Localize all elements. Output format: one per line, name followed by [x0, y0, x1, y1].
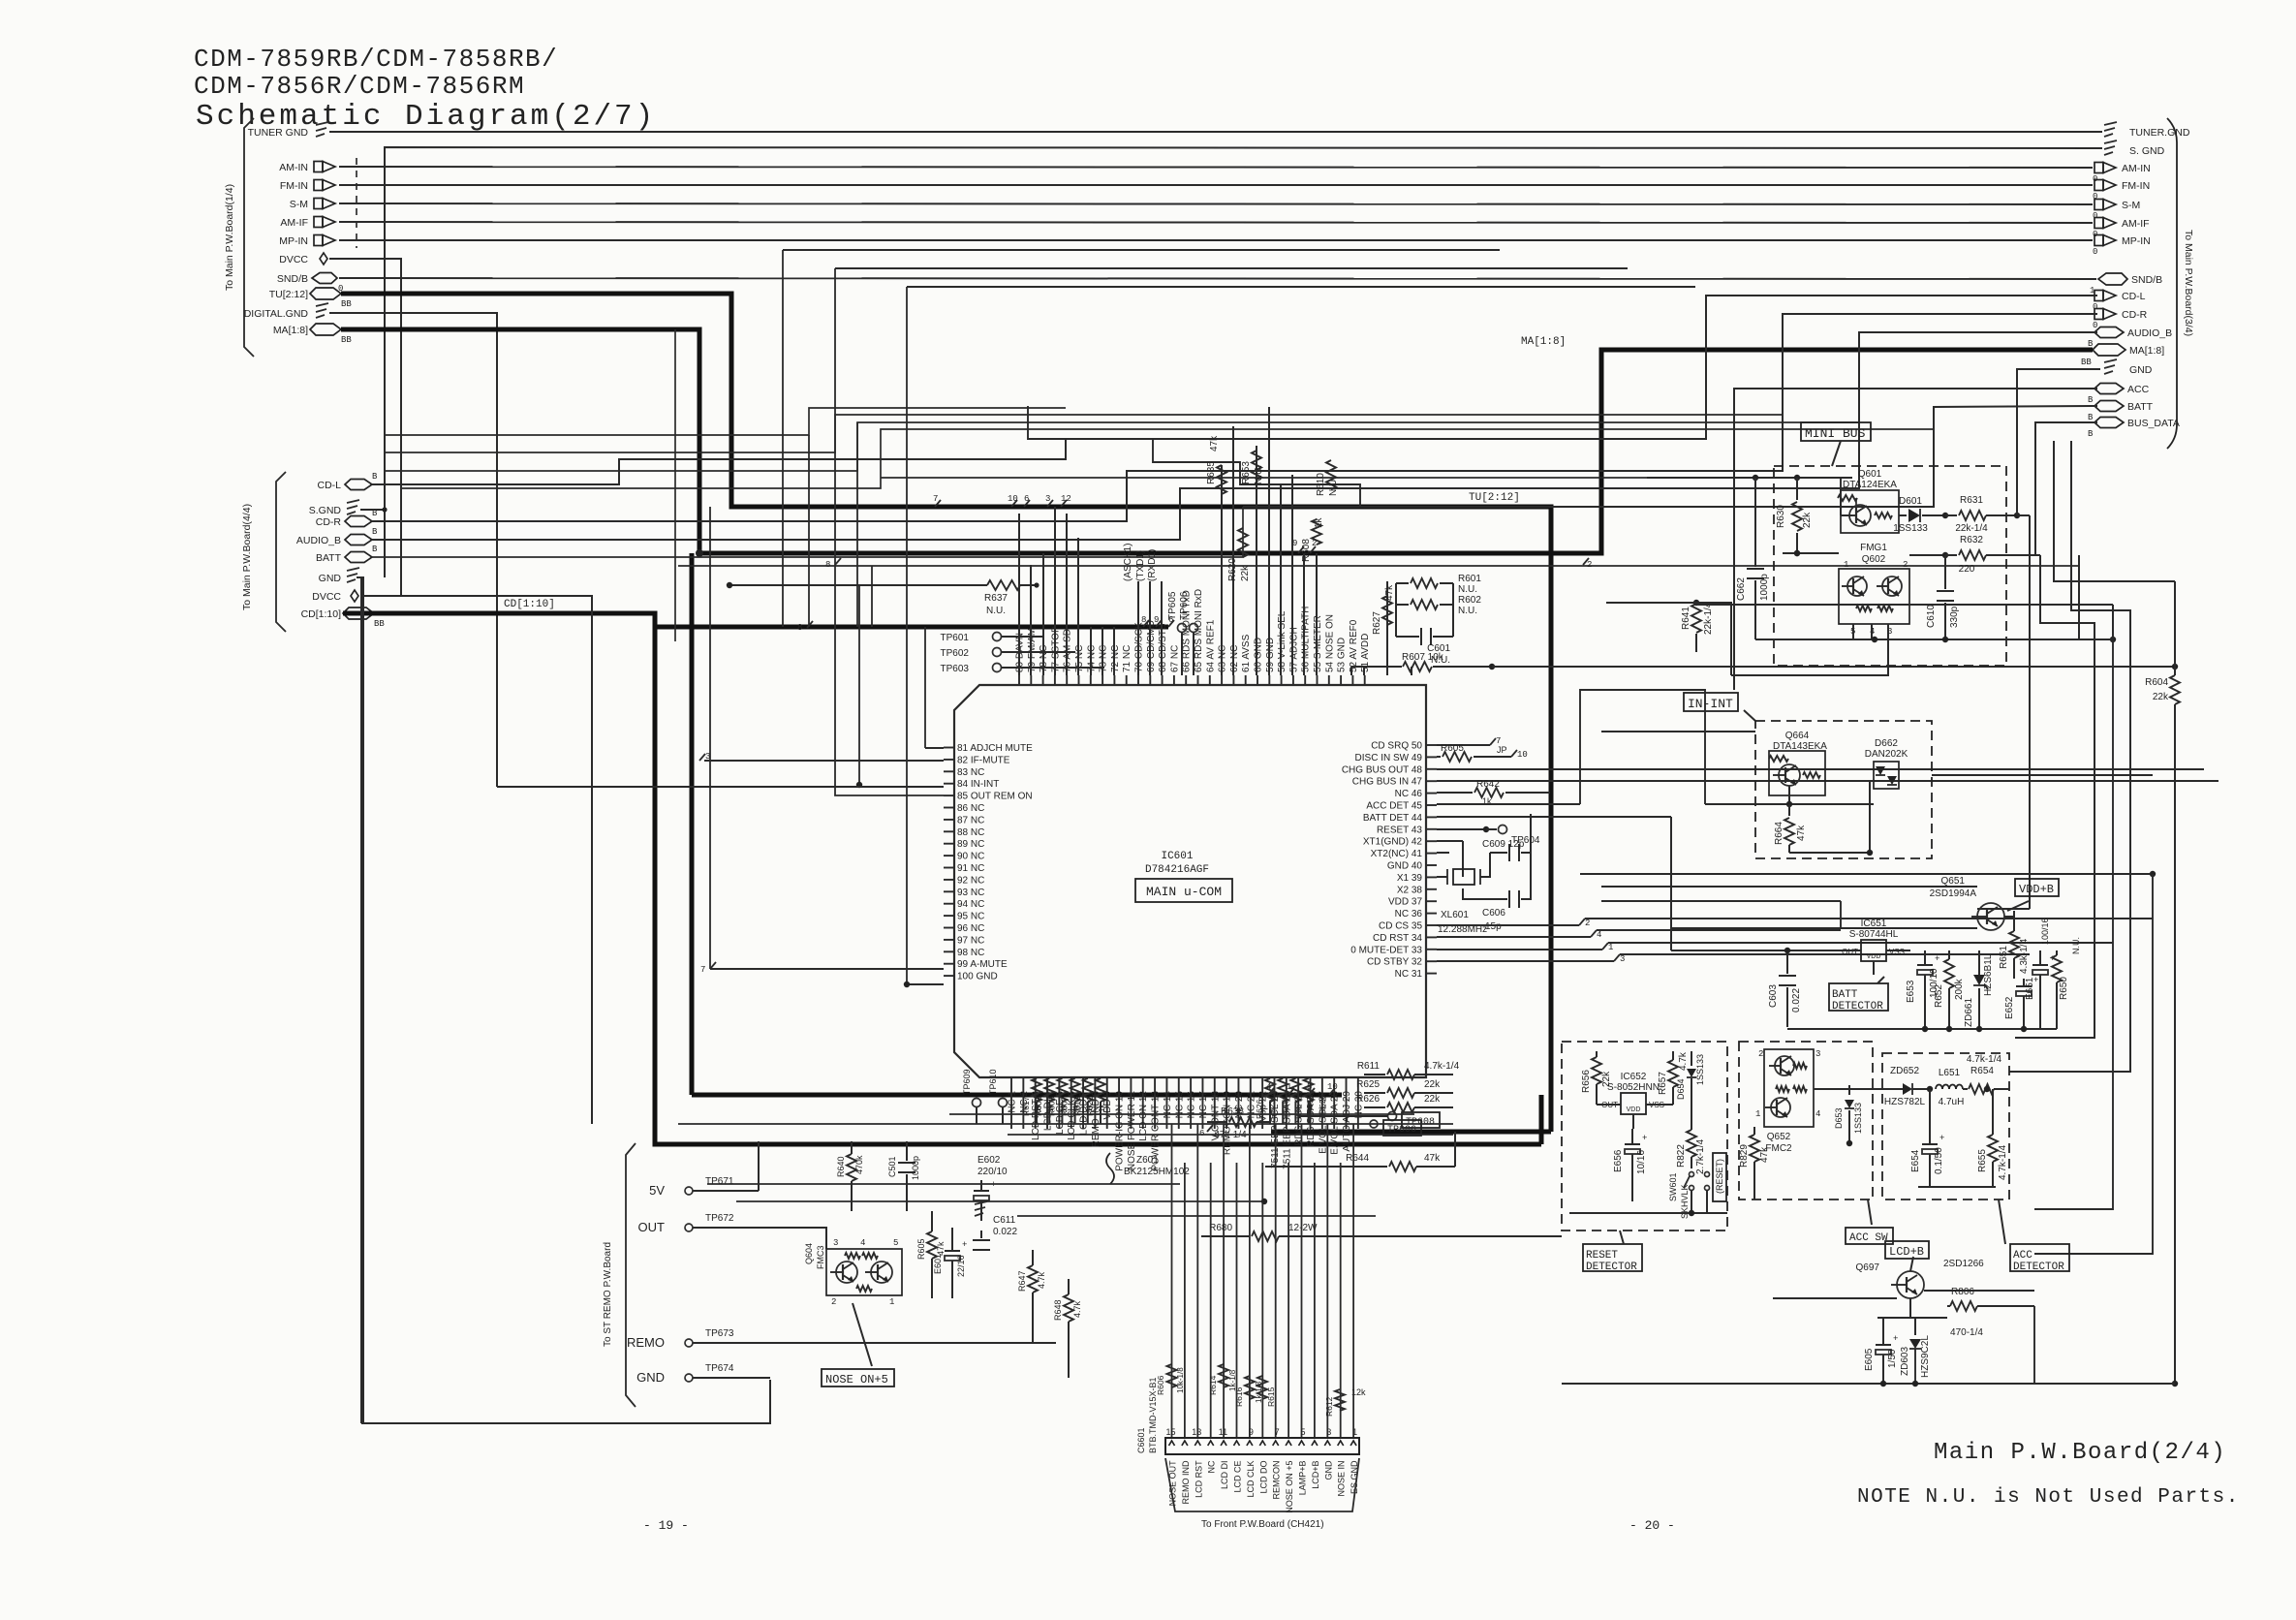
- svg-text:HZS9C2L: HZS9C2L: [1920, 1335, 1931, 1378]
- transistor pair Q602 FMG1: [1839, 543, 1909, 637]
- svg-text:4.7k-1/4: 4.7k-1/4: [1967, 1054, 2002, 1065]
- svg-text:GND: GND: [319, 573, 342, 584]
- svg-text:To Front P.W.Board (CH421): To Front P.W.Board (CH421): [1201, 1519, 1324, 1530]
- svg-text:1SS133: 1SS133: [1893, 523, 1928, 534]
- svg-text:58 V-Link SEL: 58 V-Link SEL: [1277, 610, 1288, 672]
- svg-text:S-M: S-M: [2122, 200, 2140, 211]
- svg-text:R829: R829: [1739, 1144, 1750, 1168]
- diode D662 DAN202K: [1865, 738, 1908, 789]
- svg-text:8: 8: [825, 560, 830, 570]
- svg-text:2: 2: [1585, 919, 1590, 928]
- svg-text:FM-IN: FM-IN: [2122, 180, 2150, 192]
- svg-text:0 MUTE-DET 33: 0 MUTE-DET 33: [1350, 945, 1422, 955]
- svg-text:XL601: XL601: [1441, 910, 1469, 920]
- svg-text:3: 3: [705, 752, 710, 762]
- wire right staircase d: [2009, 441, 2130, 1072]
- wire vert x=887 down: [856, 585, 862, 788]
- svg-text:NOSE ON+5: NOSE ON+5: [825, 1373, 888, 1386]
- text NOTE: [1857, 1486, 2240, 1509]
- svg-text:DVCC: DVCC: [279, 254, 308, 265]
- svg-text:+: +: [991, 1180, 996, 1190]
- svg-text:4.7k: 4.7k: [1037, 1271, 1046, 1289]
- svg-text:+: +: [1935, 954, 1939, 964]
- svg-text:MA[1:8]: MA[1:8]: [1521, 336, 1566, 348]
- svg-text:R626: R626: [1356, 1094, 1380, 1105]
- wire horizontals below IC: [678, 1114, 1453, 1216]
- svg-text:Q664: Q664: [1785, 731, 1810, 741]
- svg-text:R645: R645: [1280, 1099, 1289, 1119]
- wire R664 bottom: [1789, 781, 1874, 856]
- bus tap 65: [1199, 1125, 1213, 1138]
- svg-text:1/50: 1/50: [1887, 1349, 1898, 1368]
- svg-text:NOSE IN: NOSE IN: [1337, 1458, 1347, 1497]
- svg-text:C610: C610: [1926, 605, 1937, 628]
- svg-text:AM-IF: AM-IF: [2122, 218, 2150, 230]
- svg-text:E652: E652: [2004, 996, 2015, 1019]
- svg-text:R632: R632: [1960, 535, 1983, 545]
- wire vert x=611 down: [591, 596, 593, 1124]
- resistors below IC cluster right: [1255, 1077, 1327, 1124]
- svg-text:81 ADJCH MUTE: 81 ADJCH MUTE: [957, 743, 1033, 754]
- svg-text:79 FM/AM: 79 FM/AM: [1027, 628, 1038, 672]
- wire to pin 81: [925, 747, 944, 749]
- diode D601 1SS133: [1893, 496, 1948, 534]
- crystal XL601 12.288MHz: [1437, 841, 1490, 935]
- svg-text:BATT: BATT: [2127, 401, 2154, 413]
- svg-text:10k-1/8: 10k-1/8: [1176, 1367, 1185, 1393]
- svg-text:SND/B: SND/B: [2131, 274, 2162, 286]
- svg-text:R651: R651: [1999, 946, 2009, 969]
- svg-text:22k: 22k: [1424, 1079, 1441, 1090]
- resistor R640 470k: [836, 1141, 864, 1211]
- wire pin49 DISC IN SW: [1437, 743, 1528, 762]
- bus CD branch thick: [655, 615, 1174, 627]
- resistor R644 47k: [1265, 1132, 1455, 1171]
- resistor R602 N.U.: [1396, 595, 1481, 616]
- capacitor C606 15p: [1463, 853, 1531, 932]
- wire pin32 CD STBY: [1437, 954, 2030, 964]
- wire vert x=733 down: [709, 507, 711, 969]
- bus bottom loop thick y=1130: [692, 1093, 1342, 1098]
- resistor R615 1k-1/8: [1257, 1376, 1276, 1407]
- svg-text:AM-IN: AM-IN: [279, 162, 308, 173]
- bus taps on TU bus: [933, 494, 1071, 507]
- svg-text:0.1/50: 0.1/50: [1934, 1147, 1944, 1174]
- transistor Q651 2SD1994A VDD+B: [1930, 876, 2059, 930]
- wire pin48 CHG BUS OUT long: [1437, 768, 2204, 770]
- wire CD-L net: [372, 296, 2097, 484]
- wire right vertical f: [2112, 605, 2114, 640]
- resistor R614 1k-1/8: [1208, 1364, 1237, 1395]
- svg-text:3: 3: [1045, 494, 1050, 504]
- svg-text:R610: R610: [1316, 473, 1326, 496]
- transistor Q664 DTA143EKA: [1769, 731, 1827, 795]
- capacitor E602 220/10: [974, 1155, 1008, 1221]
- wire pin45 ACC DET: [1437, 803, 1580, 805]
- bus TU[2:12] thick: [341, 294, 1551, 1132]
- svg-text:R650: R650: [2059, 977, 2069, 1000]
- IC IC651 S-80744HL: [1841, 919, 1910, 975]
- IC601 top pins 80-51: [1015, 589, 1372, 685]
- svg-text:R605: R605: [1441, 743, 1464, 754]
- svg-text:4.3k-1/4: 4.3k-1/4: [2019, 938, 2030, 974]
- svg-text:D601: D601: [1899, 496, 1922, 507]
- svg-text:+: +: [1893, 1334, 1898, 1344]
- svg-text:TP671: TP671: [705, 1176, 734, 1187]
- svg-text:CHG BUS IN 47: CHG BUS IN 47: [1352, 777, 1423, 788]
- svg-text:1k: 1k: [1098, 1104, 1106, 1112]
- svg-text:BB: BB: [341, 335, 352, 345]
- connector J4 OUT TP672: [638, 1213, 759, 1234]
- capacitor C501 1000p: [887, 1141, 920, 1211]
- svg-text:5: 5: [893, 1238, 898, 1248]
- svg-text:MP-IN: MP-IN: [2122, 235, 2151, 247]
- svg-text:CD-L: CD-L: [317, 480, 341, 491]
- svg-text:C606: C606: [1482, 908, 1505, 919]
- svg-text:CD STBY 32: CD STBY 32: [1367, 957, 1422, 968]
- svg-text:R680: R680: [1209, 1223, 1232, 1233]
- svg-text:12k: 12k: [1351, 1387, 1366, 1397]
- svg-text:ZD652: ZD652: [1890, 1066, 1919, 1076]
- transistor Q601 DTA124EKA: [1838, 469, 1899, 533]
- svg-text:R601: R601: [1458, 574, 1481, 584]
- wire staircase net s4: [401, 429, 1934, 488]
- svg-text:Q602: Q602: [1862, 554, 1886, 565]
- wire IN-INT left loop: [1580, 690, 1705, 804]
- svg-text:AM-IF: AM-IF: [280, 217, 308, 229]
- resistor R641 22k-1/4: [1606, 600, 1714, 652]
- svg-text:B: B: [2088, 395, 2094, 405]
- svg-text:B: B: [372, 472, 378, 482]
- wire pin50 CD SRQ: [1437, 736, 1501, 746]
- svg-text:97 NC: 97 NC: [957, 935, 984, 946]
- resistor R616 1k-1/8: [1234, 1376, 1263, 1407]
- wire VDD+B rail: [1671, 911, 2014, 950]
- wire pin44 BATT DET: [1437, 817, 1671, 950]
- wire AUDIO_B net: [372, 332, 2097, 540]
- capacitor C662 1000p: [1736, 478, 1770, 639]
- wire DVCC row J2 to drop: [360, 596, 592, 1124]
- block label MINI BUS: [1801, 422, 1871, 466]
- svg-text:MAIN u-COM: MAIN u-COM: [1146, 885, 1222, 899]
- dashed box MINI BUS: [1774, 466, 2006, 666]
- svg-text:AM-IN: AM-IN: [2122, 163, 2151, 174]
- svg-text:TUNER.GND: TUNER.GND: [2129, 127, 2190, 139]
- testpoint TP606: [1179, 591, 1198, 675]
- svg-text:B: B: [372, 527, 378, 537]
- wire mini bus top: [1647, 475, 1852, 481]
- svg-text:99 A-MUTE: 99 A-MUTE: [957, 959, 1008, 970]
- resistor R656 22k: [1581, 1051, 1612, 1105]
- svg-text:89 NC: 89 NC: [957, 839, 984, 850]
- svg-text:DISC IN SW 49: DISC IN SW 49: [1355, 753, 1423, 763]
- svg-text:XT1(GND) 42: XT1(GND) 42: [1363, 837, 1423, 848]
- svg-text:4.7k: 4.7k: [1678, 1051, 1689, 1071]
- resistor R829 47k: [1739, 1127, 1770, 1199]
- svg-text:OUT: OUT: [1842, 948, 1858, 956]
- capacitor E654 0.1/50: [1910, 1089, 1944, 1187]
- svg-text:R656: R656: [1581, 1070, 1592, 1093]
- svg-text:71 NC: 71 NC: [1122, 645, 1132, 672]
- IC IC652 S-8052HNN: [1597, 1072, 1673, 1129]
- svg-text:330p: 330p: [1949, 606, 1960, 628]
- svg-text:R626: R626: [1255, 1099, 1264, 1119]
- wire SND/B net: [339, 278, 2096, 279]
- svg-text:N.U.: N.U.: [1458, 606, 1477, 616]
- transistor pair Q652 FMC2: [1755, 1049, 1820, 1154]
- svg-text:220: 220: [1959, 564, 1975, 575]
- svg-text:S.GND: S.GND: [309, 505, 342, 516]
- svg-text:0: 0: [2093, 247, 2097, 257]
- svg-text:LCD DI: LCD DI: [1220, 1458, 1229, 1489]
- svg-text:22k: 22k: [1424, 1094, 1441, 1105]
- svg-text:TP673: TP673: [705, 1328, 734, 1339]
- svg-text:8: 8: [797, 623, 802, 633]
- svg-text:CDM-7859RB/CDM-7858RB/: CDM-7859RB/CDM-7858RB/: [194, 45, 558, 74]
- bus right stub thick: [1539, 1095, 1544, 1144]
- svg-text:2: 2: [831, 1297, 836, 1307]
- svg-text:R822: R822: [1676, 1144, 1687, 1168]
- resistor R655 4.7k-1/4: [1977, 1089, 2008, 1187]
- svg-text:1k: 1k: [1314, 516, 1324, 528]
- svg-text:2: 2: [1758, 1049, 1763, 1059]
- svg-text:VDD+B: VDD+B: [2019, 883, 2054, 896]
- svg-text:200k: 200k: [1954, 978, 1965, 1000]
- resistor R806 470-1/4: [1877, 1287, 2034, 1338]
- svg-text:84 IN-INT: 84 IN-INT: [957, 779, 999, 790]
- svg-text:TP601: TP601: [941, 633, 970, 643]
- svg-text:(TXD1): (TXD1): [1135, 550, 1146, 581]
- connector C6601 bracket and label: [1165, 1458, 1359, 1530]
- svg-text:N.U.: N.U.: [2071, 937, 2081, 954]
- svg-text:4.7k: 4.7k: [1072, 1300, 1082, 1318]
- svg-text:C662: C662: [1736, 577, 1747, 601]
- svg-text:ACC DET 45: ACC DET 45: [1366, 801, 1422, 812]
- testpoint TP602: [941, 648, 1075, 660]
- zener ZD661 HZS6B1L: [1964, 950, 1994, 1029]
- svg-text:R642: R642: [1476, 779, 1500, 790]
- svg-text:61 AVSS: 61 AVSS: [1241, 634, 1252, 672]
- resistor R657 4.7k: [1658, 1051, 1689, 1105]
- svg-text:TP605: TP605: [1167, 591, 1178, 620]
- svg-text:R664: R664: [1774, 822, 1784, 845]
- svg-text:NOTE N.U. is Not Used Parts.: NOTE N.U. is Not Used Parts.: [1857, 1486, 2240, 1509]
- svg-text:B: B: [372, 545, 378, 554]
- svg-text:1: 1: [1287, 1082, 1291, 1092]
- svg-text:VDD: VDD: [1627, 1106, 1641, 1113]
- svg-text:R640: R640: [836, 1156, 846, 1177]
- svg-text:BATT DET 44: BATT DET 44: [1363, 813, 1423, 824]
- connector J4 REMO TP673: [627, 1328, 1056, 1350]
- bus MA vertical continuation thick: [690, 553, 695, 1095]
- svg-text:SND/B: SND/B: [277, 273, 308, 285]
- svg-text:BB: BB: [374, 619, 385, 629]
- capacitor E605 1/50: [1864, 1318, 1898, 1384]
- capacitor E601 22/16: [933, 1228, 967, 1298]
- svg-text:AUDIO_B: AUDIO_B: [296, 535, 341, 546]
- svg-text:1k: 1k: [1072, 1104, 1081, 1112]
- svg-text:MA[1:8]: MA[1:8]: [2129, 345, 2164, 357]
- svg-text:Q604: Q604: [804, 1243, 814, 1264]
- svg-text:R604: R604: [2145, 677, 2168, 688]
- bus tap 8 on loop: [797, 558, 841, 633]
- svg-text:C609 12p: C609 12p: [1482, 839, 1525, 850]
- testpoint TP607: [1370, 1120, 1421, 1136]
- svg-text:+: +: [962, 1240, 967, 1250]
- svg-text:7: 7: [700, 965, 705, 975]
- svg-text:DETECTOR: DETECTOR: [1586, 1262, 1637, 1273]
- svg-text:1k: 1k: [1059, 1104, 1068, 1112]
- wire R631 out: [1977, 515, 2030, 909]
- connector J2 To Main P.W.Board(4/4): [241, 472, 286, 632]
- svg-text:R620: R620: [1227, 558, 1238, 581]
- svg-text:+: +: [1939, 1134, 1944, 1143]
- svg-text:10: 10: [1327, 1082, 1338, 1092]
- svg-text:FMG1: FMG1: [1860, 543, 1887, 553]
- svg-text:(ASCK1): (ASCK1): [1123, 544, 1133, 581]
- wire loop y584: [678, 565, 2079, 567]
- svg-text:22k-1/4: 22k-1/4: [1703, 602, 1714, 635]
- svg-text:ZD603: ZD603: [1900, 1347, 1910, 1376]
- svg-text:CD-R: CD-R: [2122, 309, 2148, 321]
- svg-text:2.7k-1/4: 2.7k-1/4: [1695, 1138, 1706, 1174]
- resistor R680 12-2W: [1201, 1223, 1562, 1241]
- svg-text:R806: R806: [1951, 1287, 1974, 1297]
- wire OUT feed: [759, 1228, 826, 1249]
- svg-text:TP610: TP610: [988, 1069, 998, 1095]
- svg-text:1: 1: [1844, 560, 1848, 570]
- capacitor E652 1/50: [2004, 976, 2038, 1029]
- svg-text:3: 3: [1815, 1049, 1820, 1059]
- connector J4 To ST REMO P.W.Board: [603, 1143, 636, 1407]
- svg-text:22k: 22k: [1802, 512, 1813, 528]
- svg-text:2: 2: [1587, 560, 1592, 570]
- svg-text:X1 39: X1 39: [1397, 873, 1423, 884]
- svg-text:DETECTOR: DETECTOR: [1832, 1001, 1883, 1012]
- text page 19: [643, 1518, 689, 1533]
- svg-text:0.022: 0.022: [1791, 988, 1802, 1012]
- svg-text:D784216AGF: D784216AGF: [1145, 864, 1209, 876]
- text Main P.W.Board(2/4): [1934, 1440, 2226, 1466]
- svg-text:90 NC: 90 NC: [957, 852, 984, 862]
- capacitor C603 0.022: [1671, 948, 1841, 1027]
- wire R641 drop: [1647, 603, 2113, 1209]
- svg-text:- 20 -: - 20 -: [1629, 1518, 1675, 1533]
- svg-text:DTA143EKA: DTA143EKA: [1773, 741, 1827, 752]
- svg-text:BUS_DATA: BUS_DATA: [2127, 418, 2180, 429]
- resistor R604 22k: [1492, 581, 2180, 1386]
- svg-text:CD[1:10]: CD[1:10]: [504, 599, 555, 610]
- wire IN-INT out: [1932, 774, 2153, 776]
- block label ACC SW: [1846, 1199, 1893, 1244]
- svg-text:GND: GND: [1323, 1458, 1333, 1480]
- svg-text:E.VOL SDA 28: E.VOL SDA 28: [1330, 1091, 1341, 1155]
- block label BATT DETECTOR: [1829, 977, 1888, 1012]
- wire vert x=885b down: [856, 422, 858, 627]
- svg-text:76 AM SD: 76 AM SD: [1063, 629, 1073, 672]
- connector J3 pin symbols and labels: [2081, 122, 2190, 439]
- svg-text:POWER-IC ON 10: POWER-IC ON 10: [1115, 1091, 1126, 1171]
- svg-text:+: +: [1642, 1134, 1647, 1143]
- wire LCD+B rail: [1773, 1291, 2034, 1298]
- svg-text:4: 4: [1815, 1109, 1820, 1119]
- svg-text:N.U.: N.U.: [986, 606, 1006, 616]
- svg-text:CD-L: CD-L: [2122, 291, 2146, 302]
- svg-text:53 GND: 53 GND: [1337, 638, 1348, 672]
- svg-text:12: 12: [1061, 494, 1071, 504]
- svg-text:47k: 47k: [1209, 435, 1220, 452]
- wire DVCC net from J1 down and right: [329, 259, 401, 596]
- wire vert x=808 down: [783, 250, 1500, 627]
- wire acc det bottom: [1918, 1186, 1996, 1188]
- svg-text:LCD+B: LCD+B: [1889, 1245, 1924, 1259]
- svg-text:1: 1: [889, 1297, 894, 1307]
- resistor R620 22k: [1227, 528, 1251, 581]
- bus CD[1:10] thick: [343, 599, 1541, 1144]
- svg-text:60 GND: 60 GND: [1254, 638, 1264, 672]
- resistor R635 47k: [1206, 435, 1226, 494]
- svg-text:5V: 5V: [649, 1183, 665, 1198]
- svg-text:N.U.: N.U.: [1328, 477, 1339, 496]
- resistor R653 N.U.: [1241, 451, 1264, 484]
- svg-text:BB: BB: [341, 299, 352, 309]
- svg-text:R657: R657: [1658, 1072, 1668, 1095]
- svg-text:15: 15: [1165, 1427, 1175, 1437]
- svg-text:To Main P.W.Board(4/4): To Main P.W.Board(4/4): [241, 504, 253, 610]
- svg-text:56 MULTIPATH: 56 MULTIPATH: [1301, 607, 1312, 672]
- connector J2 pin symbols and labels: [296, 472, 386, 629]
- svg-text:DAN202K: DAN202K: [1865, 749, 1908, 760]
- svg-text:1SS133: 1SS133: [1695, 1054, 1705, 1085]
- svg-text:11: 11: [1219, 1427, 1227, 1437]
- resistor R638 47k-1/4: [1207, 1106, 1271, 1140]
- svg-text:4: 4: [1266, 1082, 1271, 1092]
- svg-text:LCD DO: LCD DO: [1258, 1458, 1268, 1494]
- wire BUS_DATA drop: [2035, 422, 2097, 555]
- wire CD-R net: [372, 314, 2097, 521]
- svg-text:R612: R612: [1324, 1396, 1334, 1417]
- svg-text:85 OUT REM ON: 85 OUT REM ON: [957, 792, 1033, 802]
- svg-text:(RXD1): (RXD1): [1147, 549, 1158, 581]
- svg-text:HZS782L: HZS782L: [1884, 1097, 1926, 1107]
- wire vert x=900 down: [871, 566, 873, 627]
- resistor R652 200k: [1934, 950, 1965, 1029]
- svg-text:N.U.: N.U.: [1254, 465, 1264, 484]
- svg-text:IC652: IC652: [1621, 1072, 1647, 1082]
- svg-text:ZD661: ZD661: [1964, 998, 1974, 1027]
- block label IN-INT: [1684, 693, 1755, 721]
- wire staircase net s1: [385, 408, 1066, 435]
- wire bottom-right rail: [1562, 1306, 2175, 1386]
- svg-text:R614: R614: [1208, 1375, 1218, 1395]
- svg-text:TP674: TP674: [705, 1363, 734, 1374]
- svg-text:- 19 -: - 19 -: [643, 1518, 689, 1533]
- testpoint TP603: [941, 664, 1104, 675]
- svg-text:CD SRQ 50: CD SRQ 50: [1371, 741, 1422, 752]
- svg-text:1k: 1k: [1046, 1104, 1055, 1112]
- svg-text:JP: JP: [1497, 745, 1507, 755]
- wire to pin 100 GND: [904, 981, 944, 987]
- svg-text:1: 1: [1755, 1109, 1760, 1119]
- svg-text:R655: R655: [1977, 1149, 1988, 1172]
- svg-text:5: 5: [1307, 1082, 1312, 1092]
- svg-text:9: 9: [1292, 539, 1297, 548]
- svg-text:DVCC: DVCC: [312, 591, 341, 603]
- svg-text:E605: E605: [1864, 1348, 1875, 1371]
- svg-text:R652: R652: [1934, 984, 1944, 1008]
- svg-text:R611: R611: [1357, 1061, 1381, 1072]
- svg-text:B: B: [2088, 429, 2094, 439]
